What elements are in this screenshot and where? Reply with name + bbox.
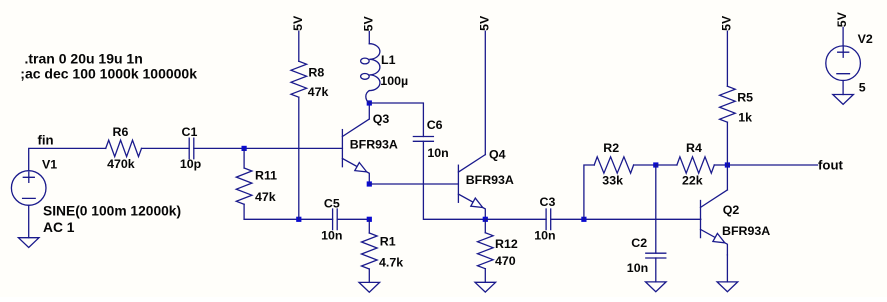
svg-text:5V: 5V xyxy=(835,11,849,27)
node junction R4/R5/fout xyxy=(725,162,730,167)
svg-text:SINE(0 100m 12000k): SINE(0 100m 12000k) xyxy=(43,204,181,219)
svg-text:L1: L1 xyxy=(381,53,396,67)
node junction Q4 emitter xyxy=(483,217,488,222)
wire V2 top xyxy=(842,28,844,46)
voltage source V1 xyxy=(11,171,46,206)
node junction C1/R11 xyxy=(242,146,247,151)
transistor Q4 emitter xyxy=(458,194,485,220)
transistor Q2 bar xyxy=(700,201,702,238)
svg-text:Q3: Q3 xyxy=(373,112,390,126)
svg-text:fin: fin xyxy=(38,132,54,147)
wire C2 top xyxy=(655,165,657,253)
transistor Q3 bar xyxy=(341,130,343,167)
resistor R1 xyxy=(368,219,370,233)
svg-text:R11: R11 xyxy=(255,169,277,183)
transistor Q3 collector xyxy=(342,119,369,137)
svg-text:22k: 22k xyxy=(682,174,703,188)
svg-text:5V: 5V xyxy=(361,16,375,32)
resistor R11 xyxy=(243,148,245,168)
svg-text:C2: C2 xyxy=(631,236,647,250)
transistor Q4 emitter arrow xyxy=(471,198,483,207)
svg-text:C3: C3 xyxy=(540,195,556,209)
node junction Q3 emitter xyxy=(367,181,372,186)
transistor Q4 bar xyxy=(457,165,459,202)
wire riser to R2 xyxy=(584,165,594,219)
svg-text:V1: V1 xyxy=(42,157,57,171)
transistor Q3 emitter arrow xyxy=(355,163,367,172)
capacitor C6 xyxy=(413,137,433,142)
svg-text:BFR93A: BFR93A xyxy=(466,173,514,187)
svg-text:R5: R5 xyxy=(737,91,753,105)
wire V1 bottom xyxy=(28,205,30,237)
svg-text:47k: 47k xyxy=(308,85,329,99)
svg-text:5V: 5V xyxy=(291,15,305,31)
resistor R12 xyxy=(484,219,486,232)
voltage source V2 xyxy=(826,46,861,81)
svg-text:;ac dec 100 1000k 100000k: ;ac dec 100 1000k 100000k xyxy=(20,66,197,82)
transistor Q4 collector xyxy=(458,155,485,173)
capacitor C2 xyxy=(646,253,666,258)
svg-text:BFR93A: BFR93A xyxy=(350,138,398,152)
svg-text:10n: 10n xyxy=(627,261,648,275)
ground V1 xyxy=(18,238,39,248)
svg-text:R6: R6 xyxy=(113,125,129,139)
node junction L1/Q3 collector xyxy=(367,100,372,105)
node junction R2/R4/C2 xyxy=(653,162,658,167)
wire C1 to Q3 base xyxy=(194,147,343,149)
transistor Q3 emitter xyxy=(342,159,369,185)
capacitor C3 xyxy=(546,209,551,230)
wire Q2 emitter to ground xyxy=(726,255,728,282)
svg-text:AC 1: AC 1 xyxy=(43,220,75,235)
transistor Q2 emitter arrow xyxy=(713,233,725,242)
wire C6 bottom to Q4 emitter node xyxy=(423,141,485,219)
transistor Q2 emitter xyxy=(701,229,728,255)
wire V2 bottom xyxy=(842,81,844,95)
resistor R8 xyxy=(298,31,300,61)
svg-text:R1: R1 xyxy=(380,234,396,248)
resistor R2 xyxy=(594,157,633,173)
wire Q3 emitter to Q4 base xyxy=(369,183,458,185)
svg-text:47k: 47k xyxy=(255,190,276,204)
inductor L1 xyxy=(368,32,370,44)
ground C2 xyxy=(646,282,667,292)
ground R12 xyxy=(475,282,496,292)
transistor Q2 collector xyxy=(701,190,728,208)
svg-text:V2: V2 xyxy=(858,32,873,46)
svg-text:10p: 10p xyxy=(180,157,202,171)
node junction R8/C5 row xyxy=(296,217,301,222)
svg-text:5V: 5V xyxy=(477,15,491,31)
svg-text:5: 5 xyxy=(859,80,866,94)
svg-text:fout: fout xyxy=(818,157,844,172)
wire Q4 collector to 5V xyxy=(484,31,486,154)
svg-text:R12: R12 xyxy=(495,237,518,251)
svg-text:C5: C5 xyxy=(324,197,340,211)
svg-text:C6: C6 xyxy=(427,118,443,132)
ground V2 xyxy=(833,95,854,105)
wire L1 node to C6 xyxy=(369,103,423,137)
svg-text:10n: 10n xyxy=(534,229,555,243)
capacitor C5 xyxy=(333,209,338,230)
svg-text:33k: 33k xyxy=(602,174,623,188)
wire fout xyxy=(727,164,817,166)
wire Q2 collector to node xyxy=(726,165,728,190)
svg-text:R2: R2 xyxy=(603,141,619,155)
wire Q4 emitter to C3 xyxy=(485,218,546,220)
ground Q2 xyxy=(717,282,738,292)
wire C3 to Q2 base xyxy=(551,218,701,220)
svg-text:10n: 10n xyxy=(321,228,342,242)
svg-text:100µ: 100µ xyxy=(380,74,408,88)
capacitor C1 xyxy=(189,138,194,159)
wire R11 bottom row to C5 xyxy=(244,218,333,220)
resistor R5 xyxy=(726,31,728,86)
svg-text:10n: 10n xyxy=(427,146,448,160)
svg-text:BFR93A: BFR93A xyxy=(722,224,770,238)
wire C5 to R1 node xyxy=(337,218,369,220)
svg-text:R4: R4 xyxy=(686,141,702,155)
wire fin: V1 top to R6 xyxy=(29,148,106,170)
wire C2 bottom xyxy=(655,258,657,282)
svg-text:470: 470 xyxy=(495,254,516,268)
transistor Q3 collector wire xyxy=(368,103,370,119)
node junction C5/R1 xyxy=(367,217,372,222)
wire R6 to C1 xyxy=(142,147,190,149)
svg-text:Q2: Q2 xyxy=(723,203,740,217)
svg-text:4.7k: 4.7k xyxy=(379,255,403,269)
svg-text:1k: 1k xyxy=(738,110,752,124)
node junction C3/R2 riser xyxy=(581,217,586,222)
resistor R4 xyxy=(656,164,677,166)
svg-text:R8: R8 xyxy=(308,65,324,79)
ground R1 xyxy=(359,282,380,292)
svg-text:Q4: Q4 xyxy=(489,148,506,162)
resistor R6 xyxy=(106,140,142,156)
svg-text:C1: C1 xyxy=(182,125,198,139)
svg-text:5V: 5V xyxy=(720,15,734,31)
svg-text:.tran 0 20u 19u 1n: .tran 0 20u 19u 1n xyxy=(25,50,143,66)
svg-text:470k: 470k xyxy=(107,157,135,171)
